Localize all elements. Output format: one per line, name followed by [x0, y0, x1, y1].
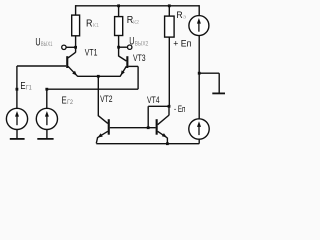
svg-text:э: э — [183, 15, 187, 21]
svg-text:E: E — [62, 95, 67, 106]
svg-text:ВЫХ1: ВЫХ1 — [41, 41, 53, 48]
svg-text:VT4: VT4 — [147, 95, 160, 105]
svg-text:- Еп: - Еп — [174, 103, 185, 114]
svg-text:Г1: Г1 — [26, 85, 32, 92]
svg-text:VT3: VT3 — [133, 53, 146, 63]
svg-text:R: R — [176, 10, 182, 21]
svg-text:R: R — [86, 18, 93, 29]
svg-text:E: E — [20, 81, 25, 92]
svg-text:VT1: VT1 — [85, 48, 98, 58]
svg-text:К2: К2 — [133, 20, 139, 26]
svg-text:К1: К1 — [93, 23, 99, 29]
svg-text:U: U — [35, 36, 40, 48]
svg-text:Г2: Г2 — [67, 99, 73, 106]
svg-text:+ Еп: + Еп — [173, 38, 191, 49]
svg-text:ВЫХ2: ВЫХ2 — [135, 40, 149, 47]
svg-text:VT2: VT2 — [100, 94, 112, 104]
svg-text:U: U — [129, 36, 134, 48]
